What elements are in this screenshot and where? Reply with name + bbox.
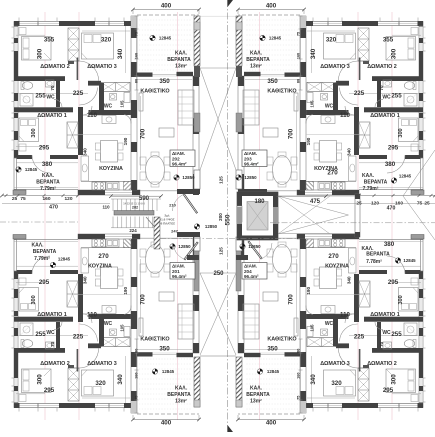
svg-text:110: 110 [87, 311, 98, 318]
svg-text:320: 320 [331, 380, 342, 387]
svg-text:80: 80 [297, 349, 301, 353]
svg-text:105: 105 [310, 324, 315, 332]
svg-text:7.78m²: 7.78m² [366, 259, 382, 265]
svg-text:ΚΑΘΙΣΤΙΚΟ: ΚΑΘΙΣΤΙΚΟ [140, 89, 169, 95]
svg-text:225: 225 [354, 333, 365, 340]
svg-text:13m²: 13m² [175, 64, 187, 70]
svg-text:160: 160 [297, 53, 301, 59]
svg-text:295: 295 [388, 279, 399, 286]
svg-text:295: 295 [39, 279, 50, 286]
svg-text:160: 160 [135, 53, 139, 59]
svg-text:282: 282 [132, 206, 138, 210]
svg-text:12845: 12845 [58, 256, 71, 261]
svg-text:270: 270 [327, 170, 338, 177]
svg-text:300: 300 [31, 128, 37, 137]
svg-text:ΚΑΛ.: ΚΑΛ. [250, 386, 263, 392]
svg-text:ΚΑΛ.: ΚΑΛ. [175, 51, 188, 57]
svg-text:350: 350 [267, 78, 278, 85]
svg-text:300: 300 [37, 48, 44, 59]
svg-text:ΚΑΘΙΣΤΙΚΟ: ΚΑΘΙΣΤΙΚΟ [267, 89, 296, 95]
svg-text:75: 75 [297, 396, 301, 400]
svg-text:200: 200 [218, 213, 223, 221]
svg-text:340: 340 [83, 148, 88, 156]
svg-text:ΒΕΡΑΝΤΑ: ΒΕΡΑΝΤΑ [246, 57, 270, 63]
svg-text:12845: 12845 [159, 36, 172, 41]
svg-text:270: 270 [328, 253, 339, 260]
svg-text:700: 700 [288, 294, 295, 305]
svg-text:295: 295 [44, 387, 55, 394]
svg-text:75: 75 [135, 32, 139, 36]
svg-text:320: 320 [95, 380, 106, 387]
svg-text:340: 340 [117, 48, 124, 59]
svg-text:13m²: 13m² [175, 399, 187, 405]
svg-text:340: 340 [347, 276, 352, 284]
svg-text:WC: WC [46, 95, 55, 101]
svg-text:96.4m²: 96.4m² [244, 274, 259, 279]
svg-text:380: 380 [384, 241, 395, 248]
svg-text:300: 300 [398, 128, 404, 137]
svg-text:80: 80 [135, 349, 139, 353]
svg-text:WC: WC [325, 104, 334, 110]
svg-text:ΒΕΡΑΝΤΑ: ΒΕΡΑΝΤΑ [366, 252, 390, 258]
svg-text:470: 470 [387, 206, 396, 212]
svg-text:12845: 12845 [399, 174, 412, 179]
svg-text:700: 700 [140, 128, 147, 139]
svg-text:ΔΩΜΑΤΙΟ 3: ΔΩΜΑΤΙΟ 3 [320, 64, 350, 70]
svg-text:400: 400 [266, 420, 277, 427]
svg-text:110: 110 [102, 205, 110, 210]
svg-text:ΔΩΜΑΤΙΟ 1: ΔΩΜΑΤΙΟ 1 [370, 113, 400, 119]
svg-text:340: 340 [83, 276, 88, 284]
svg-text:ΔΩΜΑΤΙΟ 1: ΔΩΜΑΤΙΟ 1 [37, 113, 67, 119]
svg-text:12850: 12850 [205, 224, 218, 229]
svg-text:70: 70 [379, 341, 384, 347]
svg-text:300: 300 [37, 374, 44, 385]
svg-text:ΔΩΜΑΤΙΟ 1: ΔΩΜΑΤΙΟ 1 [37, 312, 67, 318]
svg-text:110: 110 [340, 311, 351, 318]
svg-text:380: 380 [42, 161, 53, 168]
svg-text:700: 700 [140, 294, 147, 305]
svg-text:190: 190 [123, 287, 128, 295]
svg-text:125: 125 [219, 176, 224, 184]
svg-text:WC: WC [325, 321, 334, 327]
svg-text:75: 75 [135, 396, 139, 400]
svg-text:400: 400 [161, 3, 172, 10]
svg-text:12845: 12845 [267, 369, 280, 374]
svg-text:12845: 12845 [25, 167, 38, 172]
svg-text:26 ΠΛΑΤΟΣ: 26 ΠΛΑΤΟΣ [159, 222, 175, 226]
svg-text:340: 340 [310, 48, 317, 59]
svg-text:295: 295 [39, 145, 50, 152]
svg-text:12845: 12845 [269, 36, 282, 41]
svg-text:ΒΕΡΑΝΤΑ: ΒΕΡΑΝΤΑ [246, 392, 270, 398]
svg-text:ΚΟΥΖΙΝΑ: ΚΟΥΖΙΝΑ [99, 166, 123, 172]
svg-text:250: 250 [213, 271, 224, 277]
svg-text:110: 110 [87, 112, 98, 119]
svg-text:ΒΕΡΑΝΤΑ: ΒΕΡΑΝΤΑ [36, 180, 60, 186]
svg-text:340: 340 [347, 148, 352, 156]
svg-text:ΔΙΑΜ.: ΔΙΑΜ. [244, 264, 257, 269]
svg-text:475: 475 [310, 199, 321, 205]
svg-text:12850: 12850 [248, 244, 261, 249]
svg-text:190: 190 [306, 287, 311, 295]
svg-text:340: 340 [117, 374, 124, 385]
svg-text:180: 180 [254, 199, 265, 205]
svg-text:120: 120 [64, 196, 72, 202]
svg-text:400: 400 [161, 420, 172, 427]
svg-text:14 13 12 11 10 9 8: 14 13 12 11 10 9 8 [123, 202, 145, 206]
svg-text:190: 190 [306, 137, 311, 145]
svg-text:ΚΑΛ.: ΚΑΛ. [32, 242, 45, 248]
svg-text:12845: 12845 [162, 369, 175, 374]
svg-text:ΒΕΡΑΝΤΑ: ΒΕΡΑΝΤΑ [364, 180, 388, 186]
svg-text:96.4m²: 96.4m² [172, 162, 187, 167]
svg-text:ΚΑΘΙΣΤΙΚΟ: ΚΑΘΙΣΤΙΚΟ [140, 336, 169, 342]
svg-text:105: 105 [310, 100, 315, 108]
svg-text:70: 70 [379, 85, 384, 91]
svg-text:255: 255 [35, 331, 46, 338]
svg-text:320: 320 [326, 37, 337, 44]
svg-text:96.4m²: 96.4m² [244, 162, 259, 167]
svg-text:225: 225 [354, 90, 365, 97]
svg-text:ΒΕΡΑΝΤΑ: ΒΕΡΑΝΤΑ [167, 392, 191, 398]
svg-text:70: 70 [50, 85, 55, 91]
svg-text:225: 225 [73, 90, 84, 97]
svg-text:ΚΑΛ.: ΚΑΛ. [175, 386, 188, 392]
svg-text:ΚΑΛ.: ΚΑΛ. [42, 173, 55, 179]
svg-text:350: 350 [159, 345, 170, 352]
svg-text:270: 270 [98, 253, 109, 260]
svg-text:105: 105 [120, 100, 125, 108]
svg-text:300: 300 [391, 374, 398, 385]
svg-text:13m²: 13m² [250, 399, 262, 405]
svg-text:ΚΑΛ.: ΚΑΛ. [362, 173, 375, 179]
svg-text:7.79m²: 7.79m² [40, 186, 56, 192]
svg-text:ΔΙΑΜ.: ΔΙΑΜ. [172, 151, 185, 156]
svg-text:160: 160 [297, 373, 301, 379]
svg-text:ΒΕΡΑΝΤΑ: ΒΕΡΑΝΤΑ [33, 249, 57, 255]
svg-text:ΔΩΜΑΤΙΟ 3: ΔΩΜΑΤΙΟ 3 [87, 361, 117, 367]
svg-text:ΔΙΑΜ.: ΔΙΑΜ. [244, 151, 257, 156]
svg-text:190: 190 [123, 137, 128, 145]
svg-text:ΔΩΜΑΤΙΟ 1: ΔΩΜΑΤΙΟ 1 [370, 312, 400, 318]
svg-text:700: 700 [288, 128, 295, 139]
svg-text:110: 110 [340, 112, 351, 119]
svg-text:350: 350 [159, 78, 170, 85]
svg-text:550: 550 [225, 214, 232, 225]
svg-text:320: 320 [101, 37, 112, 44]
svg-text:WC: WC [382, 330, 391, 336]
svg-text:WC: WC [104, 104, 113, 110]
svg-text:ΒΕΡΑΝΤΑ: ΒΕΡΑΝΤΑ [167, 57, 191, 63]
svg-text:255: 255 [35, 93, 46, 100]
svg-text:105: 105 [120, 324, 125, 332]
svg-text:470: 470 [49, 205, 58, 211]
svg-text:160: 160 [42, 196, 50, 202]
svg-text:380: 380 [385, 161, 396, 168]
svg-text:400: 400 [266, 3, 277, 10]
svg-text:ΚΟΥΖΙΝΑ: ΚΟΥΖΙΝΑ [325, 264, 349, 270]
svg-text:ΔΩΜΑΤΙΟ 2: ΔΩΜΑΤΙΟ 2 [40, 64, 70, 70]
svg-text:350: 350 [267, 345, 278, 352]
svg-text:340: 340 [310, 374, 317, 385]
svg-text:125: 125 [219, 247, 224, 255]
svg-text:300: 300 [391, 48, 398, 59]
svg-text:ΔΩΜΑΤΙΟ 2: ΔΩΜΑΤΙΟ 2 [40, 361, 70, 367]
svg-text:ΔΩΜΑΤΙΟ 2: ΔΩΜΑΤΙΟ 2 [367, 64, 397, 70]
svg-text:12850: 12850 [178, 244, 191, 249]
svg-text:WC: WC [46, 330, 55, 336]
svg-text:96.4m²: 96.4m² [172, 274, 187, 279]
svg-text:80: 80 [297, 79, 301, 83]
svg-text:7.79m²: 7.79m² [34, 256, 50, 262]
svg-text:255: 255 [391, 93, 402, 100]
svg-text:75: 75 [20, 196, 26, 202]
svg-text:300: 300 [31, 295, 37, 304]
svg-text:355: 355 [383, 37, 394, 44]
svg-text:80: 80 [135, 79, 139, 83]
svg-text:7.79m²: 7.79m² [363, 186, 379, 192]
svg-text:295: 295 [383, 387, 394, 394]
svg-text:210: 210 [169, 203, 176, 208]
svg-text:224: 224 [129, 228, 137, 233]
svg-text:13m²: 13m² [250, 64, 262, 70]
svg-text:12845: 12845 [403, 258, 416, 263]
svg-text:70: 70 [50, 341, 55, 347]
svg-text:ΔΩΜΑΤΙΟ 3: ΔΩΜΑΤΙΟ 3 [87, 64, 117, 70]
svg-text:295: 295 [388, 145, 399, 152]
svg-text:WC: WC [104, 321, 113, 327]
svg-text:255: 255 [391, 331, 402, 338]
svg-text:225: 225 [73, 333, 84, 340]
svg-text:12850: 12850 [244, 175, 257, 180]
svg-text:247: 247 [171, 229, 178, 234]
svg-text:ΚΑΛ.: ΚΑΛ. [250, 51, 263, 57]
svg-text:ΔΩΜΑΤΙΟ 2: ΔΩΜΑΤΙΟ 2 [367, 361, 397, 367]
svg-text:ΚΑΘΙΣΤΙΚΟ: ΚΑΘΙΣΤΙΚΟ [267, 336, 296, 342]
svg-text:75: 75 [297, 32, 301, 36]
svg-text:160: 160 [135, 373, 139, 379]
svg-text:WC: WC [382, 95, 391, 101]
svg-text:ΚΟΥΖΙΝΑ: ΚΟΥΖΙΝΑ [88, 264, 112, 270]
svg-text:ΔΙΑΜ.: ΔΙΑΜ. [172, 264, 185, 269]
svg-text:355: 355 [44, 37, 55, 44]
svg-text:590: 590 [139, 196, 150, 202]
svg-text:ΔΩΜΑΤΙΟ 3: ΔΩΜΑΤΙΟ 3 [320, 361, 350, 367]
svg-text:300: 300 [398, 295, 404, 304]
svg-text:12850: 12850 [182, 175, 195, 180]
